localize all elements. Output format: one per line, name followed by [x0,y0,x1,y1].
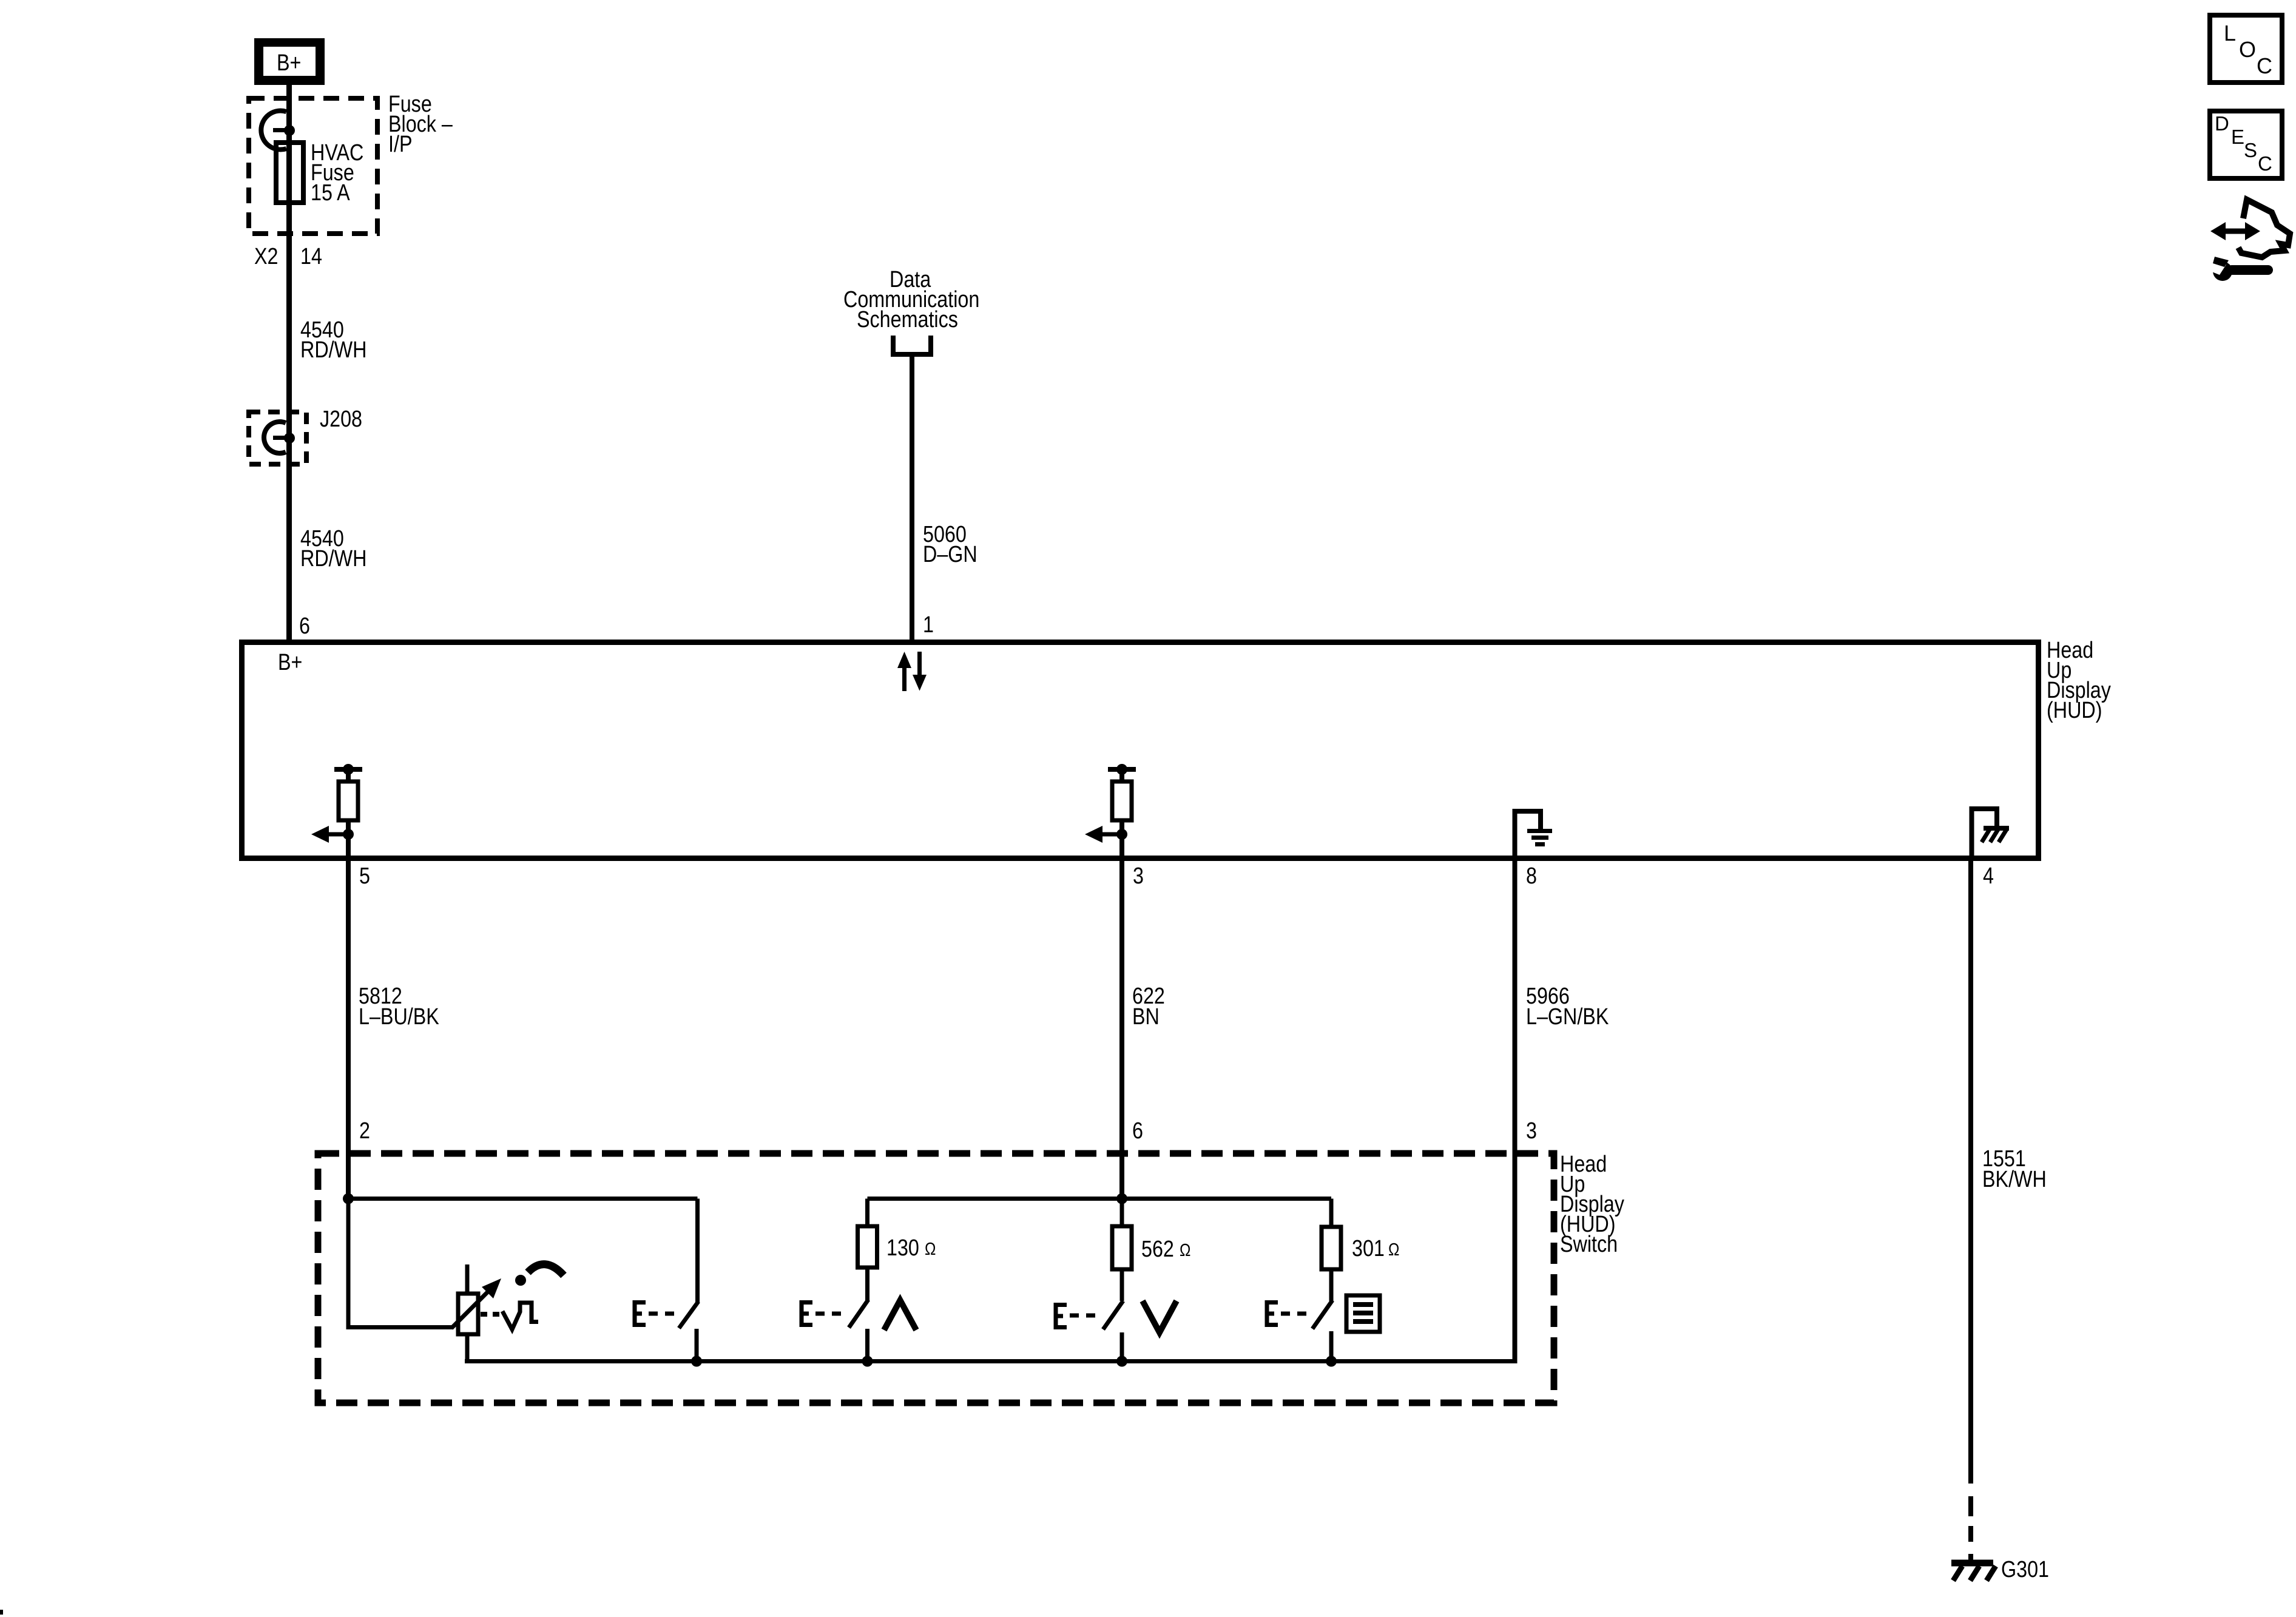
svg-text:6: 6 [299,613,310,639]
svg-text:C: C [2257,53,2272,78]
pin 3 label [1133,863,1144,889]
dashed actuator link (rheostat) [481,1312,500,1317]
label Fuse Block - I/P [388,92,453,157]
wire 5966 L-GN/BK [1513,858,1518,1363]
splice J208 dashed box [249,412,306,464]
wire 622 BN [1119,858,1124,1201]
svg-text:I/P: I/P [388,132,412,157]
pin 5 label [359,863,370,889]
svg-text:L–GN/BK: L–GN/BK [1526,1004,1609,1030]
svg-text:15 A: 15 A [311,180,350,206]
wire label 5966 L-GN/BK [1526,984,1609,1030]
label Head Up Display (HUD) [2047,638,2111,723]
svg-text:2: 2 [359,1118,370,1144]
svg-text:BN: BN [1132,1004,1160,1030]
svg-text:562: 562 [1141,1237,1174,1262]
pin 1 label (HUD) [923,612,934,638]
HUD switch dashed box [318,1153,1554,1403]
wire 1551 BK/WH [1968,858,1973,1561]
svg-text:RD/WH: RD/WH [300,337,366,363]
svg-text:O: O [2239,37,2256,62]
rheostat R (dimmer) [451,1264,501,1362]
wire 5060 D-GN [910,354,914,643]
HUD internal signal ground (pin 8) [1515,811,1553,858]
pin 14 label [300,244,322,269]
svg-text:B+: B+ [277,50,301,76]
wire 5812 L-BU/BK [346,858,351,1198]
wire label 5812 L-BU/BK [359,984,439,1030]
actuator E (S1) [635,1303,679,1325]
svg-text:(HUD): (HUD) [2047,698,2102,723]
top rail wire (resistor bank) [868,1193,1332,1204]
svg-text:4: 4 [1983,863,1994,889]
svg-text:130: 130 [886,1235,919,1261]
svg-text:301: 301 [1352,1236,1385,1261]
wire label 1551 BK/WH [1982,1146,2047,1192]
svg-text:Ω: Ω [925,1239,936,1258]
ground G301 [1951,1557,2049,1582]
switch S4 (menu) [1312,1269,1337,1367]
label J208 [320,407,362,432]
wire label 4540 RD/WH (upper) [300,317,366,363]
svg-text:S: S [2244,139,2257,161]
switch S1 (on/off) [679,1199,702,1367]
svg-text:L–BU/BK: L–BU/BK [359,1004,439,1030]
svg-text:C: C [2258,152,2272,175]
svg-text:1: 1 [923,612,934,638]
svg-text:L: L [2224,21,2236,46]
svg-text:Schematics: Schematics [857,307,958,333]
HUD internal input driver (pin 3) [1085,764,1136,858]
junction dot J208 [284,433,295,444]
HUD internal dimming driver (pin 5) [311,764,362,858]
svg-text:X2: X2 [254,244,278,269]
icon LOC [2210,15,2282,83]
svg-text:6: 6 [1132,1118,1143,1144]
resistor 562 ohm [1112,1199,1190,1270]
svg-text:B+: B+ [278,650,302,675]
rotary knob indicator [515,1264,564,1286]
wire label 4540 RD/WH (lower) [300,526,366,572]
svg-text:5: 5 [359,863,370,889]
pin 3 label (switch) [1526,1118,1537,1144]
svg-text:D: D [2215,112,2229,135]
menu symbol [1346,1295,1380,1332]
HUD internal chassis ground (pin 4) [1972,809,2010,858]
svg-text:3: 3 [1133,863,1144,889]
svg-text:14: 14 [300,244,322,269]
svg-text:Switch: Switch [1560,1232,1618,1257]
node Data Communication Schematics [843,267,979,354]
wire label 5060 D-GN [923,522,977,567]
actuator E (S3) [1056,1305,1100,1328]
node junction pin2 rail [343,1193,698,1204]
pin 6 label (switch) [1132,1118,1143,1144]
svg-text:RD/WH: RD/WH [300,546,366,572]
icon component locator (arrow, part outline, wrench) [2201,200,2290,281]
switch S2 (up) [849,1268,873,1367]
svg-text:J208: J208 [320,407,362,432]
pin 8 label [1526,863,1537,889]
svg-text:8: 8 [1526,863,1537,889]
connector terminal hook in fuse block [261,111,287,150]
fuse HVAC Fuse 15 A [276,140,363,206]
switch S3 (down) [1103,1269,1127,1367]
svg-text:Ω: Ω [1388,1240,1399,1259]
resistor 130 ohm [858,1199,936,1268]
icon DESC [2210,111,2282,178]
svg-text:G301: G301 [2001,1557,2049,1582]
svg-text:D–GN: D–GN [923,542,977,567]
pin 2 label (switch) [359,1118,370,1144]
svg-text:BK/WH: BK/WH [1982,1167,2047,1192]
power feed B+ symbol [254,38,325,85]
fuse block I/P dashed outline [249,98,377,234]
junction dot at fuse input [284,125,295,136]
wire label 622 BN [1132,984,1165,1030]
Head Up Display (HUD) box [242,643,2039,859]
up chevron symbol [884,1300,916,1330]
svg-text:Ω: Ω [1180,1240,1190,1260]
actuator E (S4) [1267,1303,1309,1325]
pin 4 label [1983,863,1994,889]
connector X2 label [254,244,278,269]
page mark [0,1610,3,1615]
wire 4540 RD/WH from B+ to HUD pin 6 [286,85,292,643]
connector terminal hook in J208 [264,422,287,453]
actuator E (S2) [802,1303,846,1325]
svg-text:E: E [2231,126,2244,148]
bottom bus wire [465,1359,1515,1363]
down chevron symbol [1143,1301,1177,1332]
serial data up/down arrows [897,652,927,691]
wire rheostat wiper feed [346,1199,454,1328]
pin 6 label (HUD) [299,613,310,639]
resistor 301 ohm [1322,1199,1399,1270]
svg-text:3: 3 [1526,1118,1537,1144]
label Head Up Display (HUD) Switch [1560,1152,1624,1257]
dimming symbol [502,1303,538,1329]
